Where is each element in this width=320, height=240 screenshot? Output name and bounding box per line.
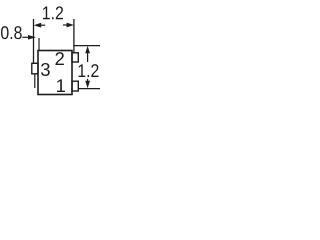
extension line right (for top 1.2 dim): [73, 19, 75, 53]
extension line top (for right 1.2 dim): [73, 45, 100, 47]
extension line bottom (for right 1.2 dim): [79, 88, 100, 90]
dimension arrow down (right 1.2): [85, 79, 90, 88]
dimension label 1.2 (top): [43, 6, 63, 19]
dimension label 1.2 (right): [79, 64, 99, 77]
extension line left lower segment: [34, 75, 36, 89]
terminal 2 (top-right tab): [72, 53, 78, 62]
dimension label 0.8 (left): [1, 26, 22, 39]
pin label 1: [57, 79, 65, 92]
extension line stub at body left edge (0.8 dim reference): [38, 38, 40, 50]
terminal 3 (left tab): [32, 63, 38, 74]
dimension arrow left (top 1.2): [34, 23, 46, 28]
dimension arrow up (right 1.2): [85, 46, 90, 62]
pin label 2: [56, 52, 64, 65]
dimension arrow 0.8 (points right): [22, 35, 36, 40]
extension line left (for 1.2 / 0.8 dims): [33, 19, 35, 63]
dimension arrow right (top 1.2): [63, 23, 74, 28]
package body U1 (top view outline): [38, 51, 72, 95]
pin label 3: [41, 63, 50, 76]
terminal 1 (bottom-right tab): [72, 81, 78, 91]
